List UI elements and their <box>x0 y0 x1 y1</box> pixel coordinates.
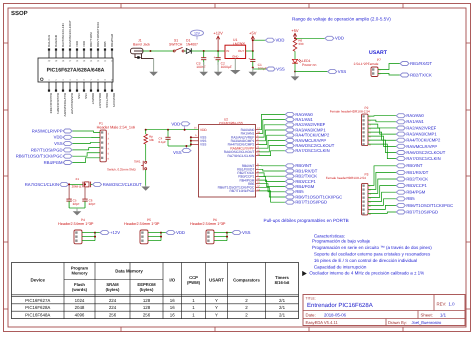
svg-text:16 pines de E / S con control: 16 pines de E / S con control de direcci… <box>314 258 417 263</box>
capacitor C1 100uF <box>252 51 254 59</box>
connector P7 2.54-1*2PFemale <box>354 58 382 77</box>
resistor Rp 10k <box>144 134 148 144</box>
svg-text:RB1/RX/DT: RB1/RX/DT <box>406 170 428 175</box>
svg-text:RA3/AN3/CMP1: RA3/AN3/CMP1 <box>56 93 60 114</box>
wire P3 pin8 to RB7/T1OSI/PGD flag <box>368 212 396 213</box>
svg-text:RA4/T0CKI/CMP2: RA4/T0CKI/CMP2 <box>63 93 67 117</box>
svg-text:Programación de bajo voltaje: Programación de bajo voltaje <box>312 239 371 244</box>
wire U2 RA3/AN3/CMP1 to flag <box>259 130 285 141</box>
wire P7 pin1 to RB1 flag <box>378 64 400 70</box>
net flag RA4/T0CKI/CMP2 <box>285 133 294 137</box>
svg-text:IN: IN <box>226 49 229 53</box>
svg-text:RB1/RX/DT: RB1/RX/DT <box>410 61 432 66</box>
junction VSS pin <box>190 143 192 145</box>
power flag +5V (regulator output) <box>252 36 254 51</box>
svg-text:RB7/T1OSI/PGD: RB7/T1OSI/PGD <box>406 209 438 214</box>
svg-text:VSS: VSS <box>54 141 63 146</box>
svg-text:Pull-ups débiles programables: Pull-ups débiles programables en PORTB <box>264 218 349 223</box>
net flag VSS (ICSP) <box>63 142 72 146</box>
wire U2 RA4/T0CKI/CMP2 to flag <box>259 135 285 144</box>
net flag VSS (near C1) <box>266 67 275 71</box>
wire C4 bottom to VSS rail <box>168 145 191 147</box>
net flag RB7/T1OSI/PGD (header P3) <box>396 210 405 214</box>
junction VSS pin <box>190 136 192 138</box>
IC SSOP PIC16F627A/628A/648A <box>38 20 116 117</box>
features list <box>309 234 432 276</box>
wire P1 pin1 to RA5/MCLR/VPP flag <box>72 131 100 132</box>
svg-text:RB0/INT: RB0/INT <box>91 93 95 104</box>
svg-text:(PWM): (PWM) <box>187 280 201 285</box>
wire P3 pin7 to RB6/T1OSO/T1CKI/PGC flag <box>368 205 396 209</box>
net flag RB7/T1OSI/PGD (ICSP) <box>63 148 72 152</box>
svg-text:1024: 1024 <box>75 298 85 303</box>
wire D1 to U1 IN <box>191 50 225 52</box>
diode D1 1N4007 <box>186 39 198 54</box>
svg-text:1000µF: 1000µF <box>221 65 232 69</box>
svg-text:Memory: Memory <box>71 271 88 276</box>
connector P3 Female headerHDR1X8-2.54 <box>326 173 372 216</box>
wire P3 pin1 to RB0/INT flag <box>368 166 396 186</box>
svg-text:128: 128 <box>143 305 151 310</box>
svg-text:VDD: VDD <box>171 121 180 126</box>
wire U2 RB1/RX/DT to flag <box>259 169 285 171</box>
svg-text:2048: 2048 <box>75 305 85 310</box>
svg-text:256: 256 <box>109 313 117 318</box>
net flag RB1/RX/DT (header P3) <box>396 170 405 174</box>
svg-text:RB3/CCP1: RB3/CCP1 <box>406 183 427 188</box>
svg-text:Header2.54mm 1*3P: Header2.54mm 1*3P <box>190 222 226 226</box>
push button SW1 <box>107 159 147 171</box>
net flag RA6/OSC2/CLKOUT (header P2) <box>396 151 405 155</box>
svg-text:100µF: 100µF <box>258 67 267 71</box>
svg-text:20MHZ: 20MHZ <box>72 184 82 188</box>
svg-text:VDD: VDD <box>82 41 86 47</box>
svg-text:RA1/AN1: RA1/AN1 <box>47 35 51 47</box>
net flag RB4/PGM (header P3) <box>396 190 405 194</box>
svg-text:USART: USART <box>369 50 388 56</box>
net flag RA2/AN2/VREF <box>285 123 294 127</box>
wires P5 pins common <box>148 232 161 234</box>
svg-text:100nF: 100nF <box>196 65 205 69</box>
svg-text:RA6/OSC2/CLKOUT: RA6/OSC2/CLKOUT <box>103 182 142 187</box>
wire LED1 to VSS node <box>294 63 296 71</box>
svg-text:RB6/T1OSO/T1CKI: RB6/T1OSO/T1CKI <box>96 22 100 47</box>
svg-text:16: 16 <box>170 305 175 310</box>
wire U1 OUT to +5V node <box>246 50 253 52</box>
svg-text:RB6/T1OSO/T1CKI/PGC: RB6/T1OSO/T1CKI/PGC <box>16 154 63 159</box>
svg-text:Data Memory: Data Memory <box>115 269 143 274</box>
net flag RA3/AN3/CMP1 (header P2) <box>396 132 405 136</box>
svg-text:Female headerHDR1X8-2.54: Female headerHDR1X8-2.54 <box>330 110 370 114</box>
svg-text:PIC16F628A: PIC16F628A <box>25 305 50 310</box>
svg-text:RB7/T1OSI/PGD: RB7/T1OSI/PGD <box>295 200 327 205</box>
svg-text:+: + <box>214 56 216 60</box>
net flag RA3/AN3/CMP1 <box>285 128 294 132</box>
svg-text:8/16-bit: 8/16-bit <box>275 280 290 285</box>
svg-text:RA7/OSC1/CLKIN: RA7/OSC1/CLKIN <box>295 148 329 153</box>
net flag RA4/T0CKI/CMP2 (header P2) <box>396 138 405 142</box>
svg-text:0.1µF: 0.1µF <box>159 140 167 144</box>
net flag RA1/AN1 (header P2) <box>396 120 405 124</box>
svg-text:RB2/TX/CK: RB2/TX/CK <box>105 93 109 108</box>
svg-text:224: 224 <box>109 298 117 303</box>
net flag RA5/MCLR/VPP (header P2) <box>396 144 405 148</box>
net flag +12V (P4) <box>100 231 109 235</box>
svg-text:Y: Y <box>215 305 218 310</box>
svg-text:SWITCH: SWITCH <box>169 43 183 47</box>
junction C1 bottom <box>252 67 254 69</box>
wire P2 pin4 to RA3/AN3/CMP1 flag <box>368 128 396 134</box>
wire R6 to LED1 <box>294 51 296 59</box>
wire Rp to SW1 <box>145 144 147 161</box>
ground at crystal <box>76 208 78 211</box>
svg-text:16: 16 <box>170 313 175 318</box>
svg-text:2.54-1*2PFemale: 2.54-1*2PFemale <box>354 62 379 66</box>
svg-text:+5V: +5V <box>291 28 299 33</box>
switch S1 <box>169 39 184 53</box>
svg-text:RA1/AN1: RA1/AN1 <box>406 119 424 124</box>
connector P6 Header2.54mm 1*3P <box>190 218 226 244</box>
svg-text:Y: Y <box>215 313 218 318</box>
svg-text:Device: Device <box>30 278 45 283</box>
wire U2 RB3/CCP1 to flag <box>259 177 285 182</box>
wire U2 RB4/PGM to flag <box>259 180 285 187</box>
svg-text:(words): (words) <box>72 287 88 292</box>
svg-text:Header2.54mm 1*3P: Header2.54mm 1*3P <box>124 222 160 226</box>
svg-text:VSS: VSS <box>200 143 206 147</box>
junction +12V tap <box>217 50 219 52</box>
net flag RB1/RX/DT <box>285 169 294 173</box>
capacitor C4 0.1uF <box>159 130 171 146</box>
net flag RA0/AN0 <box>285 112 294 116</box>
wire U2 RA2/AN2/VREF to flag <box>259 125 285 137</box>
svg-text:REV:: REV: <box>437 301 447 306</box>
wire to VSS flag <box>253 68 266 70</box>
wire U2 RB0/INT to flag <box>259 165 285 167</box>
wire P1 pin5 to RB6/T1OSO/T1CKI/PGC flag <box>72 153 100 156</box>
svg-text:1.0: 1.0 <box>449 301 456 306</box>
svg-text:Barrel Jack: Barrel Jack <box>133 43 150 47</box>
junction P6 <box>226 232 228 234</box>
ground at SW1 <box>145 186 147 187</box>
svg-text:224: 224 <box>109 305 117 310</box>
svg-text:Entrenador PIC16F628A: Entrenador PIC16F628A <box>307 302 373 309</box>
net flag RB0/INT <box>285 164 294 168</box>
svg-text:1N4007: 1N4007 <box>186 43 198 47</box>
svg-text:16: 16 <box>170 298 175 303</box>
junction P5 <box>160 232 162 234</box>
capacitor C5 22pF <box>66 184 79 208</box>
connector J1 Barrel Jack <box>131 39 154 59</box>
capacitor C3 100nF <box>203 51 205 58</box>
svg-text:RB5: RB5 <box>103 41 107 47</box>
svg-text:Soporte del oscilador externo: Soporte del oscilador externo para crist… <box>314 252 431 257</box>
svg-text:RA3/AN3/CMP1: RA3/AN3/CMP1 <box>406 131 437 136</box>
svg-text:VSS: VSS <box>173 150 182 155</box>
net flag VDD (P5) <box>166 231 175 235</box>
ground at C2 <box>217 62 219 72</box>
wire to VDD flag <box>253 39 266 41</box>
svg-text:Comparators: Comparators <box>233 278 260 283</box>
wire P1 pin4 to RB7/T1OSI/PGD flag <box>72 148 100 150</box>
wire VDD rail to U2 VDD pin <box>146 129 199 131</box>
svg-text:Power on: Power on <box>302 63 316 67</box>
connector P4 Header2.54mm 1*3P <box>58 218 94 244</box>
svg-text:256: 256 <box>143 313 151 318</box>
svg-text:Drawn By:: Drawn By: <box>388 320 407 325</box>
net flag VDD (ICSP) <box>63 135 72 139</box>
svg-text:PIC16F648A: PIC16F648A <box>25 313 50 318</box>
arrow marker <box>302 271 307 276</box>
svg-text:VSS: VSS <box>77 93 81 99</box>
net flag RA0/AN0 (header P2) <box>396 114 405 118</box>
svg-text:SSOP: SSOP <box>11 10 28 17</box>
wire P4 to flag <box>95 232 100 234</box>
svg-text:RB3/CCP1: RB3/CCP1 <box>112 93 116 108</box>
svg-text:I/O: I/O <box>169 278 175 283</box>
svg-text:USART: USART <box>209 278 224 283</box>
svg-text:22pF: 22pF <box>89 202 96 206</box>
svg-text:RA5/MCLR/VPP: RA5/MCLR/VPP <box>32 128 63 133</box>
net flag RB3/CCP1 <box>285 179 294 183</box>
svg-text:VDD: VDD <box>75 41 79 47</box>
svg-text:2018-05-06: 2018-05-06 <box>324 312 347 317</box>
net flag RB4/PGM (ICSP) <box>63 161 72 165</box>
wire SW1 to ground <box>145 170 147 186</box>
junction P4 <box>94 232 96 234</box>
net flag RB1/RX/DT (USART) <box>400 62 409 66</box>
net flag RB5 (header P3) <box>396 197 405 201</box>
svg-text:+: + <box>248 57 250 61</box>
wire VSS rail to U2 VSS pins <box>190 137 192 146</box>
svg-text:RB4/PGM: RB4/PGM <box>44 160 63 165</box>
MCU U2 PIC16F628A-I/SS <box>191 118 261 198</box>
wire U2 RA5/MCLR/VPP to flag <box>259 140 285 148</box>
svg-text:VDD: VDD <box>176 230 185 235</box>
svg-text:TITLE:: TITLE: <box>306 296 316 300</box>
svg-text:4096: 4096 <box>75 313 85 318</box>
svg-text:RA5/MCLR/VPP: RA5/MCLR/VPP <box>70 93 74 114</box>
ground at U1 GND <box>234 59 236 71</box>
svg-text:RA6/OSC2/CLKOUT: RA6/OSC2/CLKOUT <box>68 20 72 47</box>
ground at C3 <box>203 62 205 72</box>
net flag RB7/T1OSI/PGD <box>285 200 294 204</box>
net flag VDD (reset) <box>171 121 189 130</box>
svg-text:RA7/OSC1/CLKIN: RA7/OSC1/CLKIN <box>61 23 65 47</box>
wire S1 to D1 <box>184 50 186 52</box>
svg-text:RA0/AN0: RA0/AN0 <box>406 113 424 118</box>
svg-text:(bytes): (bytes) <box>106 287 120 292</box>
svg-text:VDD: VDD <box>200 128 207 132</box>
wire U2 RB6/T1OSO/T1CKI/PGC to flag <box>259 187 285 197</box>
wire P1 pin6 to RB4/PGM flag <box>72 158 100 163</box>
svg-text:(bytes): (bytes) <box>140 287 154 292</box>
wire P7 pin2 to RB2 flag <box>378 74 400 76</box>
svg-text:RB7/T1OSI/PGD: RB7/T1OSI/PGD <box>31 147 63 152</box>
net flag VSS (reset) <box>173 145 191 155</box>
capacitor C6 22pF <box>82 187 95 208</box>
svg-text:+12V: +12V <box>110 230 120 235</box>
svg-text:330: 330 <box>298 42 303 46</box>
wire to VSS flag (LED rail) <box>295 71 328 73</box>
svg-text:Joel_Buenrostro: Joel_Buenrostro <box>412 320 443 325</box>
net flag RB2/TX/CK (header P3) <box>396 177 405 181</box>
svg-text:2/1: 2/1 <box>279 298 286 303</box>
svg-text:RB2/TX/CK: RB2/TX/CK <box>406 176 428 181</box>
wire P2 pin8 to RA7/OSC1/CLKIN flag <box>368 144 396 159</box>
svg-text:12V: 12V <box>194 31 201 35</box>
svg-text:VSS: VSS <box>276 66 285 71</box>
svg-text:RA5/MCLR/VPP: RA5/MCLR/VPP <box>406 144 437 149</box>
net flag RA1/AN1 <box>285 118 294 122</box>
svg-text:PIC16F627A/628A/648A: PIC16F627A/628A/648A <box>47 68 105 74</box>
net port 12V <box>191 30 204 39</box>
net flag RB6/T1OSO/T1CKI/PGC (ICSP) <box>63 154 72 158</box>
net flag RA5/MCLR/VPP <box>285 138 294 142</box>
wire P2 pin6 to RA5/MCLR/VPP flag <box>368 136 396 146</box>
svg-text:PIC16F627A: PIC16F627A <box>25 298 50 303</box>
net flag VDD (LED rail) <box>325 36 334 40</box>
net flag RA5/MCLR/VPP (ICSP) <box>63 129 72 133</box>
regulator U1 LM7805 <box>225 38 246 59</box>
svg-text:SW1: SW1 <box>134 159 141 163</box>
wire U2 RB7/T1OSI/PGD to flag <box>259 191 285 202</box>
connector P1 Header Male 2.54_1x6 <box>97 122 135 162</box>
svg-text:RB4/PGM: RB4/PGM <box>110 33 114 47</box>
wire P3 pin5 to RB4/PGM flag <box>368 192 396 201</box>
net flag RB6/T1OSO/T1CKI/PGC (header P3) <box>396 203 405 207</box>
wire U2 RB5 to flag <box>259 184 285 192</box>
junction C3 tap <box>203 50 205 52</box>
svg-text:RA7/OSC1/CLKIN: RA7/OSC1/CLKIN <box>406 156 440 161</box>
svg-text:VSS: VSS <box>84 93 88 99</box>
net flag RB0/INT (header P3) <box>396 164 405 168</box>
net flag VSS (LED rail) <box>328 70 337 74</box>
svg-text:RB1/RX/DT: RB1/RX/DT <box>98 93 102 108</box>
svg-text:RA7/OSC1/CLKIN: RA7/OSC1/CLKIN <box>25 182 59 187</box>
svg-text:Header Male 2.54_1x6: Header Male 2.54_1x6 <box>97 126 135 130</box>
wire xtal left <box>69 183 83 185</box>
wire U2 RA6/OSC2/CLKOUT to flag <box>259 146 285 152</box>
junction VSS pin <box>190 140 192 142</box>
svg-text:+12V: +12V <box>213 31 223 36</box>
svg-text:Capacidad de interrupción: Capacidad de interrupción <box>314 264 367 269</box>
wire U2 RA0/AN0 to flag <box>259 114 285 129</box>
ground at J1 <box>153 59 155 72</box>
junction +5V node <box>252 50 254 52</box>
LED LED1 Power on <box>292 59 316 67</box>
junction C6 tap <box>84 183 86 185</box>
svg-text:10k: 10k <box>149 138 154 142</box>
net flag RA6/OSC2/CLKOUT (xtal) <box>93 182 102 186</box>
device comparison table <box>12 263 299 319</box>
wire P3 pin2 to RB1/RX/DT flag <box>368 172 396 189</box>
svg-text:VDD: VDD <box>276 38 285 43</box>
wire J1 to S1 <box>151 50 175 52</box>
power flag +5V (LED rail) <box>294 33 296 38</box>
svg-text:EasyEDA V5.4.11: EasyEDA V5.4.11 <box>306 320 339 325</box>
svg-text:RA2/AN2/VREF: RA2/AN2/VREF <box>406 125 436 130</box>
svg-text:Sheet:: Sheet: <box>421 312 433 317</box>
svg-text:RB2/TX/CK: RB2/TX/CK <box>410 72 432 77</box>
svg-text:Female headerHDR1X8-2.54: Female headerHDR1X8-2.54 <box>326 176 366 180</box>
svg-text:Y: Y <box>215 298 218 303</box>
wire P6 to flag <box>227 232 232 234</box>
svg-text:Oscilador interno de 4 MHz de: Oscilador interno de 4 MHz de precisión … <box>309 271 424 276</box>
wire P2 pin5 to RA4/T0CKI/CMP2 flag <box>368 132 396 140</box>
svg-text:VSS: VSS <box>338 69 347 74</box>
net flag RB2/TX/CK (USART) <box>400 73 409 77</box>
svg-text:Rango de voltaje de operación: Rango de voltaje de operación amplio (2.… <box>292 17 391 22</box>
wire P3 pin6 to RB5 flag <box>368 199 396 206</box>
junction Rp top <box>145 129 147 131</box>
wire P2 pin3 to RA2/AN2/VREF flag <box>368 124 396 128</box>
svg-text:RA4/T0CKI/CMP2: RA4/T0CKI/CMP2 <box>406 138 441 143</box>
wire P2 pin1 to RA0/AN0 flag <box>368 115 396 117</box>
svg-text:+5V: +5V <box>249 31 257 36</box>
wire P1 pin3 to VSS flag <box>72 143 100 144</box>
junction C4 top <box>167 129 169 131</box>
connector P2 Female headerHDR1X8-2.54 <box>330 106 372 147</box>
wire xtal right <box>91 183 93 185</box>
net flag VSS (P6) <box>232 231 241 235</box>
net flag RB2/TX/CK <box>285 174 294 178</box>
svg-text:128: 128 <box>143 298 151 303</box>
svg-text:GND: GND <box>232 54 238 58</box>
crystal X1 20MHZ <box>72 177 91 188</box>
wire P2 pin7 to RA6/OSC2/CLKOUT flag <box>368 140 396 152</box>
svg-text:RB5: RB5 <box>406 196 415 201</box>
wire U2 RB2/TX/CK to flag <box>259 173 285 176</box>
svg-text:VDD: VDD <box>54 135 63 140</box>
net flag RA7/OSC1/CLKIN (header P2) <box>396 157 405 161</box>
svg-text:RB0/INT: RB0/INT <box>406 163 422 168</box>
svg-text:RA7/OSC1/CLKIN: RA7/OSC1/CLKIN <box>227 154 255 158</box>
ground at C1 <box>252 68 254 72</box>
net flag RB3/CCP1 (header P3) <box>396 184 405 188</box>
wires P6 pins common <box>214 232 227 234</box>
svg-text:RA6/OSC2/CLKOUT: RA6/OSC2/CLKOUT <box>406 150 445 155</box>
svg-text:RA0/AN0: RA0/AN0 <box>54 35 58 47</box>
svg-text:Date:: Date: <box>306 312 316 317</box>
net flag RA2/AN2/VREF (header P2) <box>396 126 405 130</box>
svg-text:X1: X1 <box>75 177 79 181</box>
capacitor C2 1000uF <box>217 51 219 58</box>
wire to VDD flag (LED rail) <box>295 37 325 39</box>
svg-text:22pF: 22pF <box>73 202 80 206</box>
svg-text:2/1: 2/1 <box>279 313 286 318</box>
net flag RB6/T1OSO/T1CKI/PGC <box>285 195 294 199</box>
svg-text:Switch, 0.25mm SMD: Switch, 0.25mm SMD <box>107 168 137 172</box>
connector P5 Header2.54mm 1*3P <box>124 218 160 244</box>
svg-text:RB4/PGM: RB4/PGM <box>406 190 425 195</box>
wire caps common <box>69 207 85 209</box>
svg-text:Header2.54mm 1*3P: Header2.54mm 1*3P <box>58 222 94 226</box>
wire P3 pin3 to RB2/TX/CK flag <box>368 179 396 193</box>
net flag RB5 <box>285 190 294 194</box>
svg-text:RB6/T1OSO/T1CKI/PGC: RB6/T1OSO/T1CKI/PGC <box>406 203 453 208</box>
net flag VDD (power rail) <box>265 38 274 42</box>
net flag RA6/OSC2/CLKOUT <box>285 144 294 148</box>
svg-text:RB7/T1OSI/PGD: RB7/T1OSI/PGD <box>229 189 255 193</box>
wire P1 pin2 to VDD flag <box>72 136 100 138</box>
svg-text:RB7/T1OSI: RB7/T1OSI <box>89 32 93 47</box>
wire U2 RA7/OSC1/CLKIN to flag <box>259 151 285 156</box>
svg-text:Programación en serie en circu: Programación en serie en circuito ™ (a t… <box>312 245 432 250</box>
wire P2 pin2 to RA1/AN1 flag <box>368 120 396 122</box>
ground at LED rail <box>294 72 296 77</box>
wire P3 pin4 to RB3/CCP1 flag <box>368 186 396 198</box>
